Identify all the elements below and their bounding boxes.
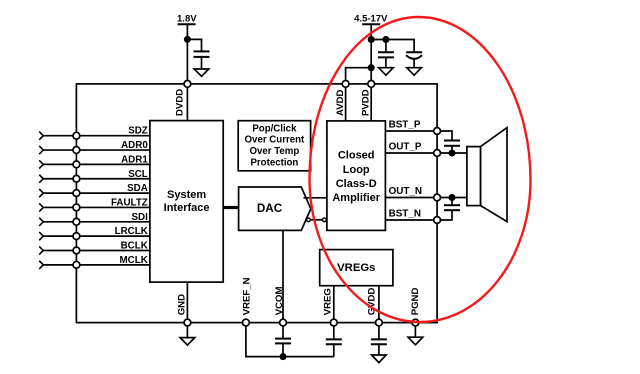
pin GND: [184, 319, 191, 326]
VREF_N label: [241, 277, 252, 315]
wire BST_P to C4: [441, 131, 453, 141]
ground (under C1): [194, 69, 209, 76]
node DAC lower left: [307, 218, 311, 222]
svg-text:VREG: VREG: [323, 288, 334, 315]
OUT_N label: [389, 186, 422, 197]
svg-text:Pop/Click: Pop/Click: [252, 123, 297, 134]
svg-text:BST_N: BST_N: [389, 208, 421, 219]
GVDD label: [367, 288, 378, 316]
supply 4.5-17V bar: [362, 23, 380, 25]
svg-text:AVDD: AVDD: [335, 89, 346, 116]
wire System Interface to DAC (bus): [224, 206, 239, 209]
wire VREG to C7: [333, 326, 335, 339]
wire DVDD to System Interface: [186, 87, 188, 120]
pin BST_P: [434, 128, 441, 135]
capacitor C7 (VREG): [326, 339, 342, 344]
wire branch to AVDD: [346, 68, 372, 84]
capacitor C5 (bootstrap N): [444, 205, 460, 210]
PVDD label: [360, 89, 371, 116]
ground (GND pin): [180, 338, 195, 346]
supply 1.8V label: [177, 14, 197, 25]
svg-text:SCL: SCL: [128, 169, 148, 180]
wire VREGs to VREG: [333, 286, 335, 323]
input pin SCL: [39, 169, 150, 183]
svg-text:1.8V: 1.8V: [177, 14, 197, 25]
input pin SDZ: [39, 126, 150, 140]
svg-text:ADR0: ADR0: [121, 140, 148, 151]
block Pop/Click Over Current Over Temp Protection: [238, 121, 310, 171]
VREG label: [323, 288, 334, 315]
ground (under C2): [379, 68, 394, 76]
block System Interface: [150, 121, 223, 283]
junction dot OUT_P: [449, 150, 454, 155]
speaker: [467, 128, 507, 222]
junction dot OUT_N: [449, 195, 454, 200]
input pin SDI: [39, 212, 150, 226]
block VREGs: [320, 250, 393, 286]
svg-text:VREGs: VREGs: [337, 262, 375, 274]
svg-text:VREF_N: VREF_N: [241, 277, 252, 315]
wire C7 to net: [333, 344, 335, 356]
input pin ADR1: [39, 154, 150, 168]
input pin ADR0: [39, 140, 150, 154]
capacitor C4 (bootstrap P): [444, 141, 460, 146]
svg-text:SDZ: SDZ: [128, 126, 148, 137]
svg-text:SDA: SDA: [127, 183, 148, 194]
svg-text:OUT_P: OUT_P: [389, 141, 422, 152]
wire DAC to amplifier lower: [310, 219, 322, 221]
OUT_P label: [389, 141, 422, 152]
pin PVDD: [368, 81, 375, 88]
pin GVDD: [376, 319, 383, 326]
wire VCOM to C6: [282, 326, 284, 339]
input pin BCLK: [39, 241, 150, 255]
svg-text:4.5-17V: 4.5-17V: [354, 14, 388, 25]
svg-text:Interface: Interface: [164, 202, 210, 214]
svg-text:Amplifier: Amplifier: [332, 192, 380, 204]
junction dot VCOM net: [280, 354, 285, 359]
junction dot 1.8V: [185, 37, 190, 42]
wire branch to C1: [187, 39, 201, 51]
svg-text:MCLK: MCLK: [120, 255, 148, 266]
capacitor C1 (1.8V decoupling): [194, 51, 210, 57]
pin BST_N: [434, 217, 441, 224]
wire amplifier to BST_P: [385, 130, 437, 132]
wire System Interface to GND: [186, 282, 188, 323]
node DAC lower right: [323, 218, 327, 222]
svg-text:OUT_N: OUT_N: [389, 186, 422, 197]
svg-text:Closed: Closed: [338, 150, 375, 162]
svg-text:Class-D: Class-D: [336, 178, 377, 190]
pin DVDD: [184, 81, 191, 88]
capacitor C8 (GVDD): [371, 339, 387, 344]
pin VCOM: [280, 319, 287, 326]
wire GVDD to C8: [378, 326, 380, 339]
wire net to C7: [283, 356, 334, 358]
DVDD label: [175, 89, 186, 116]
wire C4 to OUT_P: [451, 146, 453, 153]
svg-text:LRCLK: LRCLK: [115, 226, 148, 237]
ground (under C8): [372, 355, 387, 363]
wire C5 to OUT_N: [451, 198, 453, 206]
svg-text:PVDD: PVDD: [360, 89, 371, 116]
AVDD label: [335, 89, 346, 116]
junction dot supply lower: [369, 65, 374, 70]
wire VREGs to GVDD: [378, 286, 380, 323]
GND label: [176, 294, 187, 315]
wire PGND to ground: [414, 326, 416, 337]
svg-text:FAULTZ: FAULTZ: [111, 197, 148, 208]
wire C6 to net: [282, 343, 284, 356]
ground (PGND pin): [408, 337, 423, 345]
svg-text:DAC: DAC: [257, 202, 283, 215]
block Closed Loop Class-D Amplifier: [327, 121, 386, 230]
input pin SDA: [39, 183, 150, 197]
wire 1.8V to DVDD: [186, 24, 188, 84]
BST_P label: [389, 119, 421, 130]
BST_N label: [389, 208, 421, 219]
wire amplifier to OUT_P: [385, 152, 437, 154]
svg-text:Over Temp: Over Temp: [249, 146, 299, 157]
input pin MCLK: [39, 255, 150, 269]
PGND label: [410, 288, 421, 316]
chip package boundary: [76, 84, 437, 323]
junction dot supply upper: [369, 37, 374, 42]
red highlight ellipse: [310, 17, 531, 322]
svg-text:System: System: [167, 189, 206, 201]
capacitor C3 (polarized bulk): [406, 52, 422, 59]
svg-text:Loop: Loop: [343, 164, 370, 176]
VCOM label: [274, 287, 285, 316]
wire branch to C2 C3: [371, 40, 414, 53]
svg-text:Protection: Protection: [250, 157, 298, 168]
pin VREG: [330, 319, 337, 326]
wire GND to ground: [186, 326, 188, 338]
pin PGND: [412, 319, 419, 326]
block DAC: [239, 187, 311, 230]
svg-text:PGND: PGND: [410, 288, 421, 316]
svg-text:BCLK: BCLK: [121, 241, 148, 252]
svg-text:BST_P: BST_P: [389, 119, 421, 130]
wire BST_N to C5: [441, 210, 453, 220]
wire C3 to ground: [413, 59, 415, 68]
wire C8 to ground: [378, 344, 380, 355]
pin VREF_N: [243, 319, 250, 326]
svg-text:DVDD: DVDD: [175, 89, 186, 116]
capacitor C2 (PVDD decoupling): [378, 52, 394, 57]
wire DAC to VCOM: [282, 230, 284, 322]
pin OUT_N: [434, 194, 441, 201]
wire C2 to ground: [385, 57, 387, 67]
wire OUT_N to speaker: [441, 197, 467, 199]
wire C1 to ground: [201, 57, 203, 69]
wire PVDD to amplifier: [370, 87, 372, 121]
wire AVDD to amplifier: [345, 87, 347, 121]
supply 4.5-17V label: [354, 14, 388, 25]
svg-text:Over Current: Over Current: [245, 135, 306, 146]
input pin LRCLK: [39, 226, 150, 240]
svg-text:GND: GND: [176, 294, 187, 315]
input pin FAULTZ: [39, 197, 150, 211]
svg-text:ADR1: ADR1: [121, 154, 148, 165]
wire 4.5-17V to PVDD: [370, 24, 372, 84]
wire OUT_P to speaker: [441, 152, 467, 154]
capacitor C6 (VCOM): [275, 339, 291, 344]
pin AVDD: [342, 81, 349, 88]
svg-text:SDI: SDI: [131, 212, 148, 223]
ground (under C3): [407, 68, 422, 76]
wire amplifier to OUT_N: [385, 197, 437, 199]
supply 1.8V bar: [178, 23, 196, 25]
wire C2 stub: [385, 40, 387, 53]
pin OUT_P: [434, 150, 441, 157]
junction dot C2: [383, 37, 388, 42]
wire VREF_N to VCOM net: [246, 326, 283, 357]
svg-text:VCOM: VCOM: [274, 287, 285, 316]
wire DAC to amplifier upper: [304, 197, 327, 199]
wire amplifier to BST_N: [385, 219, 437, 221]
